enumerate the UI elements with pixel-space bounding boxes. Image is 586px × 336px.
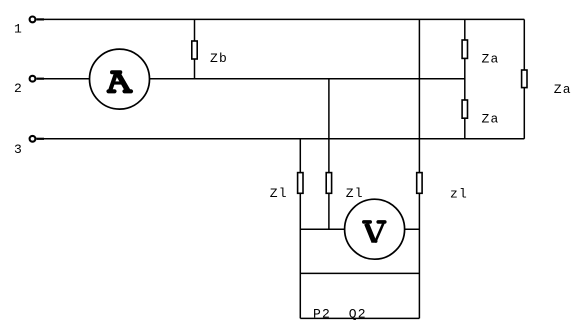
wire line 1 (phase 1 horizontal)	[37, 18, 525, 20]
svg-text:Za: Za	[482, 52, 500, 67]
resistor Zl middle	[326, 173, 331, 194]
svg-text:Za: Za	[482, 112, 500, 127]
wire line 3 (phase 3 horizontal)	[37, 138, 525, 140]
resistor zl right	[417, 173, 422, 194]
wire vertical Zb branch	[194, 19, 196, 78]
svg-text:Q2: Q2	[349, 306, 367, 321]
resistor Za lower	[462, 100, 467, 118]
wire box bottom horizontal	[300, 317, 419, 319]
resistor Zl left	[298, 173, 303, 194]
voltmeter V1	[345, 199, 405, 259]
wire horizontal through voltmeter	[300, 228, 419, 230]
wire vertical branch x=465 (line1 to line3)	[464, 19, 466, 138]
svg-text:3: 3	[14, 142, 22, 157]
resistor Za right	[522, 70, 527, 88]
svg-text:zl: zl	[450, 186, 468, 201]
terminal 3	[37, 138, 45, 140]
wire vertical branch x=300 (line3 to box bottom)	[299, 139, 301, 319]
svg-text:Za: Za	[554, 82, 572, 97]
svg-text:Zl: Zl	[346, 186, 364, 201]
wire vertical branch x=419 (line1 to box bottom)	[418, 19, 420, 318]
wire vertical branch x=524 (line1 to line3)	[523, 19, 525, 138]
svg-text:Zl: Zl	[270, 186, 288, 201]
wire vertical branch x=329 (line2 to voltmeter wire)	[328, 79, 330, 230]
ammeter A1	[90, 49, 150, 109]
terminal 2	[37, 78, 45, 80]
wire box middle horizontal	[300, 272, 419, 274]
resistor Za upper	[462, 40, 467, 58]
svg-text:2: 2	[14, 81, 22, 96]
svg-text:1: 1	[14, 21, 22, 36]
wire line 2 (phase 2 horizontal)	[37, 78, 465, 80]
resistor Zb	[192, 41, 197, 59]
terminal 1	[37, 18, 45, 20]
svg-text:Zb: Zb	[210, 51, 228, 66]
svg-text:P2: P2	[313, 306, 331, 321]
